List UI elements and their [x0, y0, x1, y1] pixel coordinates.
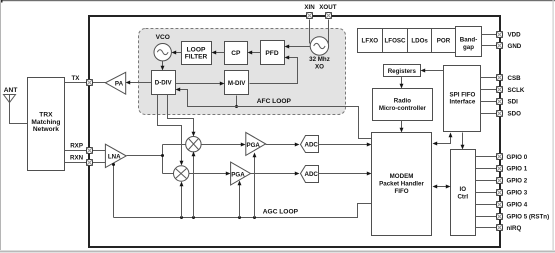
32 MHz XO oscillator: [309, 37, 330, 71]
svg-text:Band-: Band-: [460, 36, 478, 43]
svg-text:VCO: VCO: [156, 34, 170, 41]
wire D-DIV LO out to lower mixer: [158, 95, 184, 166]
wire SPI FIFO to SCLK pad: [481, 89, 497, 91]
pad GPIO0: [497, 154, 503, 160]
svg-text:SDO: SDO: [508, 110, 522, 117]
svg-text:nIRQ: nIRQ: [507, 225, 522, 232]
svg-text:PA: PA: [115, 80, 124, 87]
wire upper ADC to MODEM: [319, 143, 372, 147]
svg-text:XO: XO: [315, 63, 324, 70]
wire LOOP FILTER to VCO: [172, 51, 182, 55]
svg-text:Micro-controller: Micro-controller: [379, 105, 427, 112]
pad XIN: [307, 13, 313, 19]
D-DIV box: [152, 71, 176, 95]
chip outline: [89, 16, 500, 247]
pad XOUT: [326, 13, 332, 19]
wire upper PGA to upper ADC: [266, 143, 300, 147]
PGA upper: [246, 132, 266, 155]
pad nIRQ: [497, 225, 503, 231]
svg-text:LFXO: LFXO: [362, 37, 379, 44]
mixer lower: [174, 166, 189, 181]
wire D-DIV LO out to upper mixer: [168, 95, 196, 137]
wire AGC riser to upper mixer: [192, 152, 196, 218]
svg-text:Matching: Matching: [31, 119, 60, 126]
SPI FIFO Interface box: [444, 66, 481, 132]
CP box: [225, 42, 248, 65]
wire MODEM to IO Ctrl bidirectional: [433, 185, 451, 189]
wire IO Ctrl to GPIO 4 pad: [476, 204, 497, 206]
svg-text:GPIO 1: GPIO 1: [507, 166, 528, 173]
PFD box: [261, 41, 285, 65]
svg-text:GPIO 5 (RSTn): GPIO 5 (RSTn): [507, 213, 550, 220]
pad GPIO5: [497, 214, 503, 220]
pad RXP: [87, 148, 93, 154]
svg-text:IO: IO: [460, 186, 467, 193]
pad RXN: [87, 160, 93, 166]
wire IO Ctrl to GPIO 0 pad: [476, 156, 497, 158]
M-DIV box: [225, 71, 249, 95]
Registers box: [384, 65, 421, 77]
wire VCO to D-DIV: [161, 61, 165, 71]
svg-text:Interface: Interface: [450, 99, 476, 106]
wire XO to PFD: [285, 45, 311, 49]
wire lower ADC to MODEM: [319, 172, 372, 176]
page top border: [0, 0, 555, 1]
svg-text:gap: gap: [463, 44, 474, 51]
svg-text:CP: CP: [231, 50, 241, 57]
svg-text:RXP: RXP: [70, 142, 83, 149]
wire D-DIV to M-DIV: [176, 82, 225, 86]
svg-text:Radio: Radio: [394, 98, 411, 105]
pad SDI: [497, 99, 503, 105]
svg-text:ADC: ADC: [304, 142, 318, 149]
svg-text:TRX: TRX: [39, 112, 53, 119]
wire LNA output split to mixers, junction dot: [127, 145, 186, 174]
svg-text:XOUT: XOUT: [319, 4, 336, 11]
svg-text:Registers: Registers: [388, 68, 417, 75]
LNA amplifier: [105, 144, 126, 167]
wire AGC riser to upper PGA: [253, 153, 257, 218]
PGA lower: [231, 162, 251, 185]
page right border: [553, 0, 554, 250]
LFXO box: [358, 29, 383, 53]
svg-text:XIN: XIN: [304, 4, 315, 11]
wire AGC riser to LNA with dot: [112, 163, 115, 218]
svg-text:SCLK: SCLK: [508, 87, 525, 94]
svg-text:M-DIV: M-DIV: [228, 80, 246, 87]
pad GPIO4: [497, 202, 503, 208]
IO Ctrl box: [451, 150, 476, 236]
Band-gap box: [456, 27, 482, 57]
pad SDO: [497, 111, 503, 117]
wire SPI FIFO to SDI pad: [481, 101, 497, 103]
svg-text:FILTER: FILTER: [185, 54, 208, 61]
pad GPIO3: [497, 190, 503, 196]
pad TX: [87, 80, 93, 86]
svg-text:GND: GND: [508, 43, 522, 50]
wire SPI FIFO to IO Ctrl: [461, 133, 465, 150]
PA amplifier: [105, 72, 125, 94]
wire TRX to RXP pad to LNA: [65, 150, 106, 152]
wire XIN pad drop: [309, 20, 311, 44]
wire IO Ctrl to nIRQ pad: [476, 227, 497, 229]
wire IO Ctrl to GPIO 5 pad: [476, 216, 497, 218]
pad VDD: [497, 32, 503, 38]
wire IO Ctrl to GPIO 3 pad: [476, 192, 497, 194]
antenna ANT: [4, 87, 28, 123]
mixer upper: [186, 137, 201, 152]
svg-text:Packet Handler: Packet Handler: [379, 180, 424, 187]
VCO: [154, 34, 171, 61]
svg-text:VDD: VDD: [508, 32, 522, 39]
svg-text:PGA: PGA: [231, 171, 245, 178]
wire D-DIV to PA with arrow: [126, 81, 152, 85]
wire IO Ctrl to GPIO 2 pad: [476, 180, 497, 182]
wire lower PGA to lower ADC: [251, 172, 300, 176]
svg-text:Network: Network: [33, 126, 59, 133]
svg-text:POR: POR: [437, 37, 451, 44]
wire Radio MCU to MODEM: [400, 121, 404, 133]
svg-text:D-DIV: D-DIV: [155, 80, 173, 87]
wire AFC line from MODEM to D-DIV: [176, 88, 372, 139]
wire SPI FIFO to CSB pad: [481, 77, 497, 79]
wire Band-gap to VDD pad: [482, 34, 497, 36]
ADC lower: [301, 166, 319, 183]
wire IO Ctrl to GPIO 1 pad: [476, 168, 497, 170]
svg-text:ANT: ANT: [4, 87, 18, 94]
MODEM Packet Handler FIFO box: [372, 133, 432, 236]
wire Band-gap to GND pad: [482, 45, 497, 47]
wire AGC riser to lower mixer: [180, 182, 184, 218]
LFOSC box: [383, 29, 408, 53]
wire SPI FIFO to Registers: [421, 69, 444, 73]
svg-text:LDOs: LDOs: [411, 37, 428, 44]
svg-text:PFD: PFD: [265, 50, 278, 57]
svg-text:AGC LOOP: AGC LOOP: [263, 209, 299, 216]
pad CSB: [497, 75, 503, 81]
svg-text:LOOP: LOOP: [187, 46, 206, 53]
svg-text:SDI: SDI: [508, 98, 519, 105]
POR box: [432, 29, 456, 53]
page bottom shadow band: [0, 251, 555, 253]
pad SCLK: [497, 87, 503, 93]
svg-text:GPIO 0: GPIO 0: [507, 154, 528, 161]
svg-text:FIFO: FIFO: [394, 188, 408, 195]
pad GND: [497, 43, 503, 49]
svg-text:GPIO 4: GPIO 4: [507, 201, 528, 208]
pad GPIO2: [497, 178, 503, 184]
ADC upper: [301, 136, 319, 153]
wire XOUT pad drop: [328, 20, 330, 44]
svg-text:LNA: LNA: [108, 154, 121, 161]
TRX Matching Network box: [28, 78, 65, 171]
wire AGC riser to lower PGA: [238, 181, 242, 218]
svg-text:MODEM: MODEM: [390, 173, 414, 180]
wire M-DIV down to AFC line, junction dot: [235, 96, 238, 109]
svg-text:TX: TX: [71, 75, 80, 82]
svg-text:CSB: CSB: [508, 75, 522, 82]
svg-text:GPIO 3: GPIO 3: [507, 190, 528, 197]
AFC synthesizer dashed region: [139, 29, 346, 115]
LOOP FILTER box: [182, 42, 212, 65]
svg-text:GPIO 2: GPIO 2: [507, 178, 528, 185]
svg-text:AFC LOOP: AFC LOOP: [257, 98, 292, 105]
svg-text:ADC: ADC: [304, 171, 318, 178]
wire Registers to Radio MCU: [400, 77, 404, 89]
svg-text:LFOSC: LFOSC: [385, 37, 406, 44]
pad GPIO1: [497, 166, 503, 172]
wire CP to LOOP FILTER: [212, 51, 225, 55]
Radio Micro-controller box: [373, 89, 433, 121]
LDOs box: [408, 29, 432, 53]
svg-text:Ctrl: Ctrl: [457, 194, 468, 201]
wire M-DIV to PFD feedback: [250, 56, 298, 84]
wire lower mixer to lower PGA: [189, 172, 231, 176]
page left border: [0, 0, 1, 250]
wire TRX to TX pad with arrow into pad: [65, 82, 106, 84]
wire TRX to RXN pad to LNA: [65, 162, 106, 164]
svg-text:PGA: PGA: [246, 142, 260, 149]
svg-text:RXN: RXN: [70, 154, 84, 161]
wire upper mixer to upper PGA: [202, 143, 246, 147]
svg-text:32 Mhz: 32 Mhz: [309, 56, 330, 63]
AGC loop line with junction dots: [114, 204, 372, 220]
wire SPI FIFO to SDO pad: [481, 113, 497, 115]
wire PFD to CP: [248, 51, 261, 55]
wire MODEM to SPI FIFO bidirectional: [433, 133, 453, 146]
